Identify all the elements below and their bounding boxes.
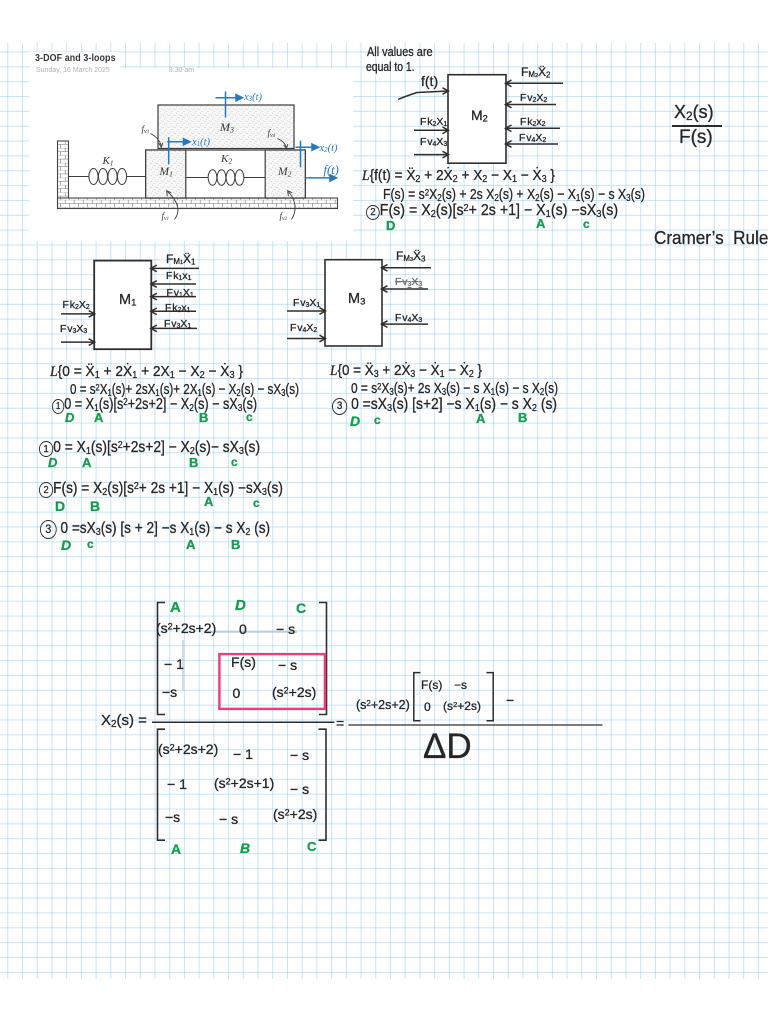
FBD M2 right arrow Fv4X2 [506, 141, 559, 148]
x1(t) position marker and arrow [167, 137, 190, 164]
green A under A3 [536, 217, 545, 230]
mass M1 block [146, 150, 186, 198]
main fraction bar [152, 721, 334, 723]
denominator r1c2 [233, 747, 253, 761]
equation C1 [330, 363, 482, 380]
green D under D3 [61, 538, 71, 552]
label x3(t) [244, 93, 262, 104]
FBD M3 box [325, 260, 382, 346]
green B under D2 [90, 499, 100, 513]
rhs small matrix right bracket [487, 673, 494, 721]
mass M3 block [158, 105, 294, 149]
numerator r1c2 [239, 622, 247, 636]
rhs matrix r2c2 (s2+2s) [443, 700, 481, 712]
FBD M3 right label FM3X3 [396, 250, 425, 264]
X2(s) = label [101, 713, 147, 730]
FBD M2 right label Fv2X2 [520, 93, 547, 105]
equation B1 [50, 364, 243, 381]
FBD M2 left label Fk2X1 [420, 117, 447, 129]
rhs matrix r2c1 0 [424, 701, 431, 713]
denominator r1c3 [290, 748, 309, 762]
label M2 [278, 167, 291, 179]
fv4 pointer curve [278, 139, 288, 149]
faint stray line row1 [205, 631, 297, 633]
green D under D2 [55, 499, 65, 513]
green C under D2 [253, 497, 260, 509]
numerator r2c1 [164, 657, 184, 671]
FBD M1 box [94, 261, 151, 350]
numerator r3c2 [233, 686, 241, 700]
FBD M3 label [348, 292, 365, 307]
FBD M3 left arrow Fv3X1 [287, 308, 326, 315]
fv3 pointer curve [151, 134, 163, 148]
label f(t) figure [324, 164, 339, 177]
numerator matrix right bracket [319, 603, 327, 715]
FBD M1 left arrow Fk2X2 [61, 311, 95, 318]
date line [36, 67, 194, 74]
x2(t) position marker and arrow [296, 141, 319, 168]
fv2 pointer curve [288, 191, 295, 220]
rhs small matrix left bracket [414, 673, 421, 721]
pink highlight box [219, 654, 325, 709]
label K1 [103, 156, 114, 168]
denominator r2c3 [290, 782, 309, 796]
FBD M1 right label Fk2X1 [165, 303, 191, 315]
page title [35, 54, 116, 64]
numerator r1c3 [276, 622, 295, 636]
label M3 [220, 121, 234, 134]
green C above numerator col3 [296, 601, 306, 615]
green C below denominator col3 [307, 840, 316, 853]
green B under B3 [199, 411, 208, 424]
numerator r1c1 [156, 621, 216, 635]
denominator matrix left bracket [158, 729, 166, 840]
denominator r3c2 [219, 812, 238, 826]
FBD M2 left arrow f(t) [398, 88, 449, 100]
label fv2 [280, 212, 288, 223]
FBD M2 right label FM2X2 [521, 66, 550, 80]
rhs trailing minus [506, 693, 514, 707]
FBD M3 right arrow Fv4X3 [382, 321, 429, 328]
FBD M1 right label Fv3X1 [164, 319, 191, 331]
equation A2 [383, 187, 645, 204]
FBD M3 right label Fv3X3 (light) [395, 277, 422, 289]
FBD M1 right arrow Fk1X1 [151, 281, 196, 288]
FBD M1 right label FM1X1 [166, 253, 195, 267]
label K2 [221, 154, 232, 166]
green D above numerator col2 [235, 598, 246, 613]
rhs cofactor (s2+2s+2) [356, 699, 410, 712]
FBD M2 right arrow Fv2X2 [506, 101, 557, 108]
FBD M1 left arrow Fv3X3 [61, 339, 95, 346]
green C under B3 [246, 411, 253, 423]
FBD M2 right arrow Fk2X2 [506, 125, 561, 132]
green B under D3 [231, 538, 240, 551]
green A under B3 [94, 411, 103, 424]
equation B2 [70, 382, 299, 399]
equation D1 [39, 440, 260, 457]
equation B3 [52, 397, 257, 414]
green A under D3 [186, 538, 195, 551]
assembly outline between masses [146, 150, 306, 198]
green A under D2 [204, 495, 213, 508]
label fv3 [142, 125, 150, 136]
green B under C3 [518, 411, 527, 424]
FBD M2 right label Fv4X2 [519, 133, 546, 145]
numerator r3c3 [272, 685, 316, 699]
numerator matrix left bracket [158, 603, 166, 715]
green A under C3 [476, 412, 485, 425]
spring K1 [69, 169, 146, 185]
FBD M2 left arrow Fv4X3 [414, 151, 449, 158]
rhs fraction bar [348, 724, 602, 726]
equation A3 [366, 203, 618, 220]
FBD M3 right arrow Fv3X3 [382, 286, 429, 293]
FBD M1 right arrow Fv3X1 [151, 325, 197, 332]
denominator r2c2 [214, 776, 274, 790]
equals before rhs [336, 716, 344, 730]
spring K2 [186, 170, 265, 186]
FBD M2 left label Fv4X3 [420, 137, 447, 149]
label fv1 [162, 212, 170, 223]
FBD M1 right arrow Fv1X1 [151, 293, 196, 300]
FBD M3 left arrow Fv4X2 [287, 335, 326, 342]
equation D2 [39, 481, 283, 498]
green C under A3 [583, 218, 590, 230]
delta D denominator [423, 729, 472, 764]
FBD M1 right label Fv1X1 [167, 288, 194, 300]
equation C3 [332, 397, 557, 415]
FBD M1 left label Fk2X2 [63, 300, 90, 312]
FBD M3 left label Fv4X2 [290, 323, 317, 335]
white backing of title block [29, 52, 120, 68]
green A under D1 [82, 456, 91, 469]
white backing of printed figure [29, 68, 353, 241]
denominator r3c3 [273, 807, 317, 821]
denominator r2c1 [167, 777, 187, 791]
green C under D3 [87, 538, 94, 550]
FBD M1 right label Fk1X1 [166, 271, 192, 283]
rhs matrix r1c2 -s [454, 679, 467, 691]
floor (brick strip) [58, 198, 338, 209]
green D under C3 [350, 414, 360, 428]
FBD M2 right label Fk2X2 [520, 117, 546, 129]
equation D3 [40, 520, 270, 539]
rhs matrix r1c1 F(s) [421, 679, 442, 691]
FBD M2 label [471, 108, 488, 124]
green A above numerator col1 [170, 600, 181, 615]
numerator r2c3 [278, 658, 297, 672]
green B under D1 [189, 456, 198, 469]
denominator r3c1 [165, 810, 180, 824]
FBD M3 right arrow FM3X3 [382, 265, 432, 272]
label fv4 [268, 129, 276, 140]
wall (brick column) [58, 141, 69, 199]
FBD M3 right label Fv4X3 [395, 313, 422, 325]
green B below denominator col2 [240, 841, 250, 855]
green D under A3 [386, 219, 395, 232]
numerator r2c2 [231, 655, 256, 669]
denominator r1c1 [158, 742, 218, 756]
numerator r3c1 [162, 685, 177, 699]
mass M2 block [265, 150, 305, 198]
equation A1 [362, 168, 555, 185]
FBD M1 right arrow FM1X1 [151, 265, 199, 272]
Cramer's Rule [654, 229, 768, 247]
FBD M2 right arrow FM2X2 [506, 80, 564, 87]
FBD M1 right arrow Fk2X1 [151, 308, 196, 315]
label x1(t) [192, 138, 210, 149]
fv1 pointer curve [167, 191, 178, 220]
FBD M1 left label Fv3X3 [60, 324, 87, 336]
FBD M2 left arrow Fk2X1 [414, 127, 449, 134]
faint stray vertical line col1 [182, 640, 184, 691]
equation C2 [351, 381, 558, 398]
green C under C3 [374, 414, 381, 426]
x3(t) position marker and arrow [216, 91, 243, 117]
transfer function goal X2(s)/F(s) [674, 103, 714, 123]
green C under D1 [231, 456, 238, 468]
f(t) force arrow [305, 175, 336, 181]
note: all values equal to 1 [367, 45, 433, 58]
label M1 [160, 167, 173, 179]
green D under D1 [48, 456, 57, 469]
FBD M2 box [448, 75, 506, 164]
denominator matrix right bracket [319, 729, 327, 840]
label x2(t) [320, 144, 338, 155]
FBD M2 left label f(t) [421, 74, 438, 88]
green D under B3 [65, 411, 74, 424]
green A below denominator col1 [171, 842, 181, 856]
FBD M1 label [119, 293, 136, 308]
FBD M3 left label Fv3X1 [293, 298, 320, 310]
